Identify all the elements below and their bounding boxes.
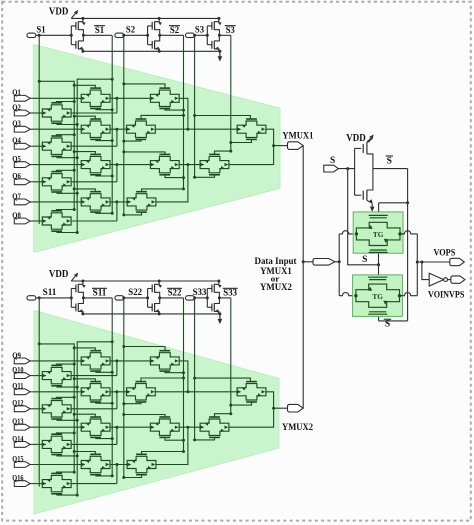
wire select feed A [39,344,74,474]
wire Q3 [30,128,81,130]
input port Q16 [14,481,30,487]
wire S33 [195,297,208,299]
wire S1 [36,34,71,36]
transmission gate stage1 A2 [42,401,71,417]
inverter U-S2 [146,34,149,37]
wire E bottom gate [165,109,184,111]
wire S distribution [348,169,379,265]
svg-text:VDD: VDD [49,7,69,18]
transmission gate stage1 B2 [81,121,110,137]
wire select line 3 [194,35,196,177]
transmission gate stage3 upper [237,384,266,400]
transmission gate stage2 E [150,90,179,106]
wire H top gate [142,452,184,455]
transmission gate stage1 B3 [81,419,110,435]
wire Q6 [30,181,42,183]
wire to output port [274,145,288,147]
svg-text:Q10: Q10 [12,365,23,375]
svg-text:YMUX2: YMUX2 [282,423,313,433]
mux tree region YMUX2 (green trapezoid) [34,311,279,515]
wire select line 3 [194,298,196,440]
wire gate stubs B [74,379,95,382]
wire lower top gate [215,414,231,417]
input port Q13 [14,424,30,430]
wire S3bar [219,34,230,36]
wire H output [156,427,188,464]
wire stage1 outputs join [71,181,117,183]
svg-text:S11: S11 [93,289,107,299]
wire Q12 [30,408,42,410]
transmission gate stage1 B3 [81,156,110,172]
svg-text:YMUX1: YMUX1 [282,131,313,141]
svg-text:Q9: Q9 [12,350,21,360]
input port Q9 [14,358,30,364]
ground arrow (S1 row) [219,51,221,58]
transmission gate stage2 F [127,384,156,400]
svg-text:Q13: Q13 [12,416,23,426]
svg-text:Q3: Q3 [12,118,21,128]
input port S [324,165,339,172]
wire YMUX1-YMUX2 bus [302,146,304,409]
wire gate stubs A [56,397,74,398]
svg-text:Q4: Q4 [12,135,21,145]
wire select line 1 inverted [111,298,113,476]
svg-text:Q7: Q7 [12,191,21,201]
input port Q8 [14,218,30,224]
wire tree output join [229,392,274,427]
wire select feed B [77,79,112,233]
transmission gate stage1 A3 [42,174,71,190]
input port Q14 [14,442,30,448]
wire G bottom gate [165,437,184,440]
transmission gate stage2 G [150,419,179,435]
wire lower bottom gate [195,175,215,178]
wire S33bar [219,297,230,299]
wire to inverter [422,262,429,280]
input port Q1 [14,95,30,101]
wire source rail [83,313,220,315]
svg-text:Q5: Q5 [12,154,21,164]
wire select line 1 [38,298,40,487]
transmission gate stage3 lower [200,419,229,435]
wire stage1 outputs join [71,112,117,114]
wire upper bottom gate [231,402,252,405]
input port Q12 [14,406,30,412]
wire select line 1 inverted [111,35,113,213]
wire Q8 [30,220,42,222]
svg-text:S1: S1 [95,26,104,36]
input port S33 [186,296,195,300]
wire H bottom gate [124,212,142,215]
wire S bar [373,168,408,170]
svg-text:S: S [362,255,367,265]
svg-text:VDD: VDD [346,133,366,144]
input port Q3 [14,126,30,132]
wire F top gate [141,115,184,119]
input port Q7 [14,199,30,205]
wire gate stubs A [56,210,74,211]
wire select line 3 inverted [230,298,232,414]
transmission gate stage1 B4 [81,194,110,210]
wire gate stubs B [74,152,95,155]
transmission gate stage2 G [150,156,179,172]
svg-text:VOPS: VOPS [434,248,456,258]
transmission gate stage3 lower [200,156,229,172]
svg-text:Data Input: Data Input [255,257,298,267]
transmission gate stage1 A4 [42,213,71,229]
inverter U-S11 [70,296,73,299]
wire F top gate [141,378,184,382]
transmission gate stage1 B4 [81,456,110,472]
output port VOINVPS [451,276,465,283]
wire gate stubs B [74,85,95,88]
svg-text:S: S [385,320,390,330]
wire F bottom gate [124,402,141,404]
wire G output [179,426,200,428]
wire select feed B [77,342,112,496]
inverter VOINVPS [429,273,444,286]
transmission gate TG lower [356,284,400,307]
wire gate stubs B [74,452,95,455]
svg-text:S3: S3 [226,26,235,36]
wire select line 2 inverted [183,298,185,452]
wire S1bar [83,34,112,36]
input port S11 [27,296,36,300]
input port Q5 [14,162,30,168]
wire F bottom gate [124,139,141,141]
svg-text:Q11: Q11 [12,381,23,391]
svg-text:or: or [271,273,280,283]
wire stage1 outputs join [71,408,117,410]
wire select line 2 [123,298,125,478]
wire Q1 [30,97,81,99]
wire S22bar [160,297,184,299]
transmission gate stage1 B1 [81,353,110,369]
wire source rail [83,50,220,52]
wire E output [179,98,188,129]
output port YMUX2 [288,404,304,412]
mux tree region YMUX1 (green trapezoid) [34,44,281,252]
wire H top gate [142,189,184,192]
transmission gate stage2 E [150,353,179,369]
wire Q2 [30,112,42,114]
TG box upper [353,212,403,253]
wire S2 to E top gate [124,347,165,351]
wire TG outputs join [400,231,417,234]
transmission gate stage1 B2 [81,384,110,400]
wire H bottom gate [124,475,142,478]
wire Q7 [30,201,81,203]
inverter U-S22 [146,296,149,299]
transmission gate stage3 upper [237,121,266,137]
wire gate stubs B [74,414,95,417]
wire Q9 [30,360,81,362]
transmission gate stage1 B1 [81,90,110,106]
svg-text:S2: S2 [126,25,135,35]
svg-text:S1: S1 [36,25,45,35]
svg-text:Q14: Q14 [12,433,24,443]
output port YMUX1 [288,142,304,150]
transmission gate stage1 A4 [42,475,71,491]
svg-text:S11: S11 [43,288,57,298]
wire S22 [124,297,148,299]
wire S2 to E top gate [124,84,165,88]
wire Q10 [30,375,42,377]
wire Q11 [30,391,81,393]
transmission gate stage1 A1 [42,367,71,383]
input port Q15 [14,462,30,468]
wire G top gate [124,152,165,155]
wire E bottom gate [165,371,184,373]
svg-text:VOINVPS: VOINVPS [428,290,464,300]
svg-text:S22: S22 [168,289,182,299]
svg-text:S: S [387,156,392,166]
svg-text:S2: S2 [170,26,179,36]
wire H output [156,165,188,202]
output port VOPS [450,258,465,265]
wire stage1 outputs join [71,220,117,222]
wire Q5 [30,164,81,166]
wire F output [155,391,237,393]
wire upper bottom gate [231,139,252,142]
input port S2 [115,33,124,37]
wire S11 [36,297,71,299]
wire lower bottom gate [195,437,215,440]
transmission gate TG upper [356,222,400,245]
svg-text:TG: TG [373,230,384,239]
svg-text:YMUX2: YMUX2 [260,283,292,293]
wire tree output join [229,129,274,164]
svg-text:TG: TG [372,292,383,301]
wire S3 [195,34,208,36]
ground arrow (pass-gate cell) [371,204,373,209]
wire Q14 [30,443,42,445]
wire gate stubs A [56,433,74,434]
svg-text:S33: S33 [223,289,237,299]
wire Q4 [30,145,42,147]
wire stage1 outputs join [71,483,117,485]
transmission gate stage1 A2 [42,138,71,154]
wire select line 3 inverted [230,35,232,151]
wire S11bar [83,297,112,299]
wire select feed A [39,81,74,211]
transmission gate stage2 F [127,121,156,137]
wire to output port [274,407,288,409]
wire Q15 [30,464,81,466]
wire Q16 [30,483,42,485]
wire VDD rail [71,17,219,19]
svg-text:Q1: Q1 [12,87,21,97]
inverter U-S (generates S bar) [354,148,356,195]
wire select line 1 [38,35,40,224]
transmission gate stage2 H [127,194,156,210]
svg-text:VDD: VDD [49,269,69,280]
inverter U-S1 [70,34,73,37]
wire stage1 outputs join [71,443,117,445]
wire gate stubs B [74,116,95,119]
wire G top gate [124,415,165,418]
input port Q10 [14,373,30,379]
inverter U-S33 [206,296,209,299]
transmission gate stage2 H [127,456,156,472]
wire S2 [124,34,148,36]
svg-text:Q15: Q15 [12,453,23,463]
svg-text:Q12: Q12 [12,398,23,408]
wire lower top gate [215,151,231,154]
wire S3 to upper top gate [195,378,251,382]
wire S3 to upper top gate [195,116,251,120]
inverter U-S3 [206,34,209,37]
wire stage1 outputs join [71,145,117,147]
transmission gate stage1 A1 [42,105,71,121]
wire gate stubs B [74,348,95,351]
port Data Input [313,259,335,266]
svg-text:S22: S22 [128,288,142,298]
wire Q13 [30,426,81,428]
wire gate stubs A [56,170,74,171]
svg-text:Q16: Q16 [12,473,23,483]
wire VDD rail [71,280,219,282]
input port Q11 [14,389,30,395]
ground arrow (S11 row) [219,314,221,321]
wire S input [338,168,354,170]
wire G bottom gate [165,175,184,178]
wire F output [155,128,237,130]
wire stage1 outputs join [71,375,117,377]
wire gate stubs A [56,102,74,103]
wire select line 2 [123,35,125,215]
wire gate stubs A [56,364,74,365]
input port Q4 [14,143,30,149]
wire gate stubs B [74,189,95,192]
TG box lower [353,275,403,317]
input port S1 [27,33,36,37]
wire inverter out [448,279,451,281]
svg-text:Q6: Q6 [12,171,21,181]
input port S3 [186,33,195,37]
wire gate stubs A [56,135,74,136]
wire E output [179,361,188,392]
wire S2bar [160,34,184,36]
input port Q2 [14,110,30,116]
wire data to TG pair [335,261,339,263]
wire gate stubs A [56,472,74,473]
transmission gate stage1 A3 [42,436,71,452]
svg-text:Q8: Q8 [12,210,21,220]
svg-text:S3: S3 [195,26,204,36]
svg-text:Q2: Q2 [12,102,21,112]
wire G output [179,164,200,166]
wire select line 2 inverted [183,35,185,189]
input port Q6 [14,179,30,185]
input port S22 [115,296,124,300]
